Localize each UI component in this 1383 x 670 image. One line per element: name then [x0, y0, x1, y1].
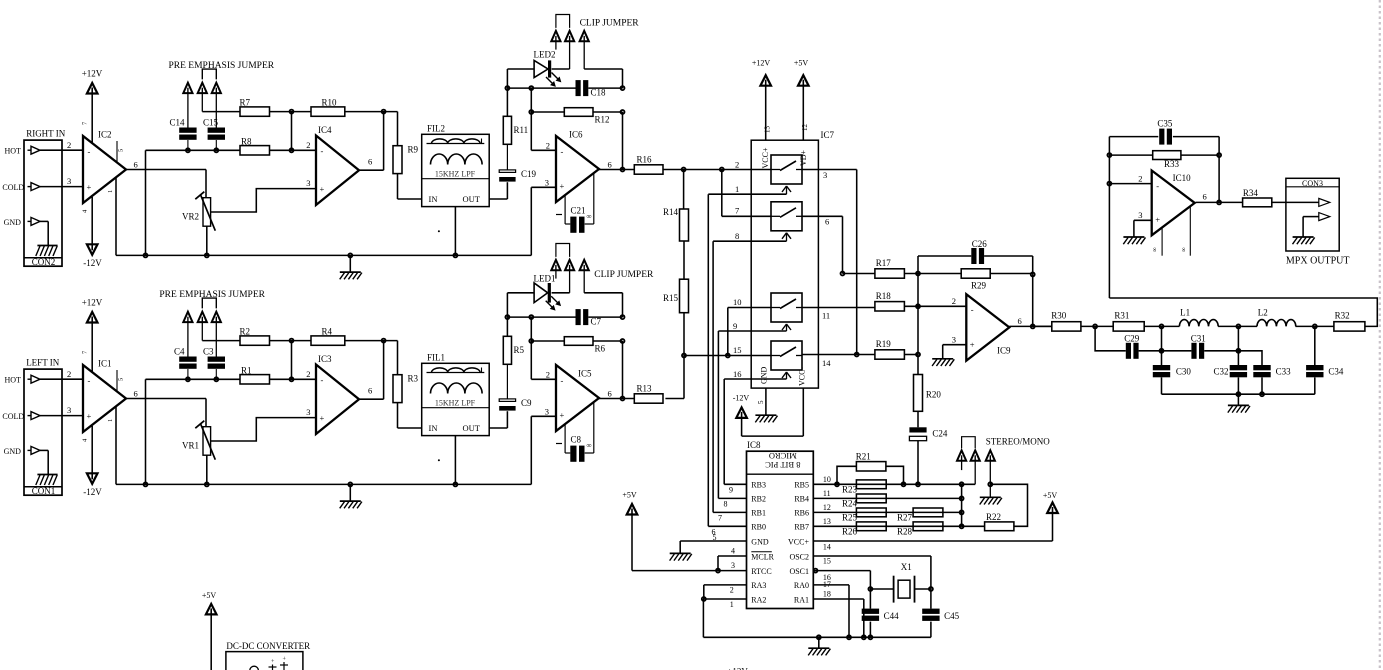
- wire S4 out (pin14): [802, 354, 875, 356]
- svg-text:13: 13: [823, 517, 831, 526]
- svg-text:MCLR: MCLR: [751, 552, 774, 561]
- svg-text:C32: C32: [1213, 366, 1228, 376]
- junction rail RA1: [862, 635, 866, 639]
- wire Rf right: [593, 111, 623, 113]
- pin 3 label (IC7): [823, 170, 827, 180]
- svg-text:14: 14: [823, 542, 831, 551]
- svg-text:R21: R21: [856, 451, 871, 461]
- wire Rfb mid to pin2 line: [291, 341, 293, 380]
- wire RB3 pin9: [724, 484, 746, 494]
- wire R13 to divider: [665, 398, 684, 400]
- resistor R5: [503, 336, 524, 364]
- wire -12V to VCC-: [742, 388, 804, 436]
- amp out pin6 label: [368, 157, 372, 167]
- svg-text:6: 6: [1018, 316, 1022, 326]
- wire RTCC pin3: [632, 561, 747, 571]
- junction FIL/rail: [453, 253, 457, 257]
- capacitor C24: [909, 427, 948, 440]
- wire LED cathode to jumper: [552, 292, 570, 294]
- junction input rail: [144, 253, 148, 257]
- pin number 3: [67, 176, 71, 186]
- wire VR wiper to amp pin3: [211, 189, 316, 212]
- IC8 pin labels RB2/RB4: [751, 495, 809, 504]
- IC10 stub pins: [1152, 206, 1191, 256]
- svg-text:IC1: IC1: [98, 359, 112, 369]
- clip jumper pin2 arrow: [565, 260, 574, 293]
- svg-text:+12V: +12V: [82, 298, 103, 308]
- svg-text:6: 6: [368, 157, 372, 167]
- label +12V (cut off): [727, 667, 748, 670]
- svg-text:VD+: VD+: [799, 149, 808, 166]
- svg-text:10: 10: [823, 475, 831, 484]
- pin COLD arrow: [2, 183, 40, 192]
- amp pin3 label: [306, 178, 310, 188]
- capacitor C15: [203, 117, 225, 140]
- wire R20 to C24: [917, 411, 919, 427]
- capacitor C4: [174, 346, 197, 369]
- svg-text:6: 6: [1203, 192, 1207, 202]
- svg-text:X1: X1: [901, 562, 912, 572]
- resistor R9: [393, 145, 419, 174]
- wire VCC+ pin14: [813, 541, 1052, 551]
- junction L1 left: [1160, 324, 1164, 328]
- wire out: [599, 398, 634, 400]
- junction RA3/RA2: [702, 597, 706, 601]
- pin 7 label (IC7): [735, 206, 739, 216]
- svg-text:R13: R13: [637, 383, 653, 393]
- svg-text:2: 2: [735, 159, 739, 169]
- svg-text:2: 2: [546, 369, 550, 379]
- capacitor C21: [556, 206, 592, 233]
- capacitor C21 leads: [565, 174, 594, 225]
- wire R17 right: [904, 273, 961, 275]
- svg-text:15KHZ LPF: 15KHZ LPF: [435, 170, 476, 179]
- svg-text:RB5: RB5: [794, 481, 809, 490]
- resistor R30: [1051, 310, 1081, 331]
- wire VR wiper to amp pin3: [211, 418, 316, 441]
- filter block FIL2: [422, 124, 490, 207]
- microcontroller IC8 box: [747, 440, 814, 609]
- svg-text:R12: R12: [595, 115, 610, 125]
- ground stem (top rail): [348, 253, 352, 272]
- svg-text:5: 5: [118, 149, 125, 152]
- svg-text:CLIP JUMPER: CLIP JUMPER: [580, 19, 640, 29]
- amp pin3 label: [306, 407, 310, 417]
- wire S1 out (pin3): [802, 170, 857, 355]
- capacitor C32: [1213, 326, 1247, 377]
- ground (IC10): [1123, 237, 1145, 244]
- label MPX OUTPUT: [1286, 255, 1350, 266]
- wire R19 right: [904, 354, 918, 356]
- wire R30: [1033, 325, 1052, 327]
- +5V supply (DC-DC): [202, 591, 217, 670]
- svg-text:IC5: IC5: [578, 369, 592, 379]
- resistor R2: [240, 326, 270, 345]
- svg-text:3: 3: [731, 561, 735, 570]
- pin 1 label: [107, 419, 114, 422]
- svg-text:OUT: OUT: [463, 423, 481, 433]
- wire OSC2 pin15: [813, 556, 931, 589]
- wire C29-C31: [1139, 350, 1192, 352]
- wire pin10 branch: [728, 308, 771, 356]
- ground rail (bottom channel): [116, 483, 531, 485]
- svg-text:MICRO: MICRO: [769, 451, 797, 461]
- svg-text:+: +: [560, 410, 565, 420]
- pin COLD arrow: [2, 412, 40, 421]
- IC8 pin labels RA3/RA0: [751, 581, 809, 590]
- svg-text:LEFT IN: LEFT IN: [26, 358, 60, 368]
- capacitor C44: [862, 589, 899, 621]
- svg-text:RA3: RA3: [751, 581, 766, 590]
- svg-text:10: 10: [733, 297, 742, 307]
- ground (CON3): [1293, 237, 1315, 244]
- IC8 pin labels RA2/RA1: [751, 595, 809, 604]
- wire fb right vertical: [1218, 137, 1220, 203]
- +12V supply arrow: [82, 69, 103, 94]
- svg-text:CON2: CON2: [32, 257, 56, 267]
- junction RB5/R21b: [902, 482, 906, 486]
- svg-text:+12V: +12V: [752, 59, 771, 68]
- resistor R34: [1243, 188, 1272, 207]
- wire C26 right: [984, 256, 1033, 274]
- wire CON3 pin2 to ground: [1303, 217, 1319, 237]
- svg-text:2: 2: [306, 369, 310, 379]
- capacitor C35: [1157, 119, 1173, 145]
- junction pin10/pin15: [726, 354, 730, 358]
- svg-text:R16: R16: [637, 154, 653, 164]
- wire feedback down to opamp out: [383, 341, 385, 400]
- svg-text:-: -: [321, 146, 324, 156]
- resistor R10: [311, 97, 345, 116]
- wire out node to Rs: [397, 341, 399, 375]
- wire Rf right: [593, 340, 623, 342]
- resistor R15: [663, 279, 689, 313]
- label STEREO/MONO: [986, 436, 1051, 446]
- capacitor C29: [1124, 333, 1140, 358]
- pin 13 supply +12V: [752, 59, 771, 141]
- svg-text:R7: R7: [240, 97, 251, 107]
- pin number 3: [67, 405, 71, 415]
- wire S2 out (pin6): [802, 216, 843, 273]
- junction cap row right: [621, 86, 625, 90]
- pin 4 label: [82, 209, 89, 213]
- junction LED node: [505, 86, 509, 90]
- junction jumper3/R22: [988, 482, 992, 486]
- svg-text:C34: C34: [1328, 366, 1344, 376]
- svg-text:RA2: RA2: [751, 595, 766, 604]
- svg-text:R5: R5: [514, 345, 525, 355]
- svg-text:DC-DC CONVERTER: DC-DC CONVERTER: [226, 641, 310, 651]
- svg-text:+: +: [1155, 214, 1160, 224]
- ground (bottom rail): [340, 501, 362, 508]
- svg-text:2: 2: [67, 369, 71, 379]
- jumper pin 1 arrow: [183, 312, 192, 357]
- ground (IC7 pin5): [755, 415, 777, 422]
- wire input line: [146, 378, 241, 380]
- wire R31-L1: [1144, 325, 1179, 327]
- svg-text:1: 1: [107, 190, 114, 193]
- wire pin7 branch: [722, 170, 771, 217]
- svg-text:C26: C26: [972, 239, 988, 249]
- wire R29 right: [990, 273, 1032, 275]
- junction pin2 node: [1107, 182, 1111, 186]
- pin 16 label (IC7): [733, 369, 742, 379]
- wire Rin to amp pin2: [270, 378, 317, 380]
- svg-text:R6: R6: [595, 344, 606, 354]
- pin3 wire: [531, 416, 556, 484]
- IC8 pin labels GND/VCC+: [751, 537, 809, 546]
- junction summing R17: [916, 272, 920, 276]
- pin2 label: [546, 140, 550, 150]
- dashed page border: [1379, 0, 1381, 670]
- switch S3 control arrow: [782, 324, 791, 331]
- wire FIL OUT: [489, 182, 507, 199]
- svg-text:-: -: [561, 147, 564, 157]
- junction cap b: [214, 377, 218, 381]
- wire RA0 pin17: [813, 580, 849, 637]
- svg-text:∞: ∞: [587, 213, 592, 221]
- output pin 6 label: [134, 389, 138, 399]
- jumper bracket: [202, 69, 216, 79]
- svg-text:15: 15: [823, 557, 831, 566]
- wire ctrl S1 (RB0): [708, 194, 786, 526]
- svg-text:6: 6: [608, 160, 612, 170]
- pin number 2: [67, 369, 71, 379]
- junction pin2 line: [290, 377, 294, 381]
- svg-text:R30: R30: [1051, 310, 1067, 320]
- resistor R24: [842, 494, 886, 509]
- wire RB4 pin11: [813, 489, 961, 499]
- wire jumper3 across: [584, 69, 622, 88]
- capacitor C33: [1253, 365, 1291, 377]
- label RIGHT IN: [26, 129, 66, 139]
- capacitor C18: [576, 80, 607, 98]
- junction RB5/R21a: [835, 482, 839, 486]
- junction output/feedback: [382, 339, 386, 343]
- junction C29 tap: [1093, 324, 1097, 328]
- ground stem (bottom rail): [348, 482, 352, 501]
- svg-text:4: 4: [731, 546, 735, 555]
- resistor R4: [311, 326, 345, 345]
- resistor R12: [564, 108, 609, 125]
- svg-text:R29: R29: [971, 281, 987, 291]
- junction pin2 line: [290, 148, 294, 152]
- op-amp IC4: [316, 125, 359, 205]
- bus junction RB5: [960, 482, 964, 486]
- svg-text:VR1: VR1: [182, 441, 199, 451]
- junction Rfb mid: [290, 110, 294, 114]
- svg-text:3: 3: [545, 406, 549, 416]
- junction Rfb row: [529, 110, 533, 114]
- wire X1 left: [870, 588, 893, 590]
- pin 1 stub / wire to ground rail: [115, 407, 117, 484]
- svg-text:∞: ∞: [587, 442, 592, 450]
- wire RB2 pin8: [718, 498, 746, 508]
- wire divider mid: [683, 241, 685, 279]
- pin 7 label: [82, 350, 89, 354]
- ground (connector): [36, 475, 58, 486]
- svg-text:-: -: [561, 376, 564, 386]
- wire C35 line: [1109, 136, 1158, 138]
- wire fb bus down: [530, 317, 532, 379]
- wire summing bus: [917, 256, 919, 375]
- wire RB bus vertical: [961, 484, 963, 526]
- svg-text:VCC-: VCC-: [798, 367, 807, 386]
- wire IC9 pin3 to ground: [943, 345, 967, 359]
- wire pin2 (IC10): [1109, 183, 1151, 185]
- wire COLD to IC pin3: [40, 415, 83, 417]
- IC8 pin labels RB3/RB5: [751, 481, 809, 490]
- clip jumper pin3 arrow: [580, 260, 589, 293]
- wire +12V to opamp: [91, 323, 93, 372]
- out pin6 label (IC9): [1018, 316, 1022, 326]
- pin 7 label: [82, 121, 89, 125]
- wire FIL OUT: [489, 411, 507, 428]
- svg-text:∞: ∞: [1152, 247, 1159, 252]
- svg-text:C9: C9: [521, 398, 532, 408]
- wire Rs to FIL IN: [398, 403, 422, 428]
- wire cap leads to input line: [188, 140, 216, 150]
- svg-text:VCC+: VCC+: [788, 537, 809, 546]
- wire +12V to opamp: [91, 94, 93, 143]
- svg-text:2: 2: [730, 585, 734, 594]
- junction R32 left: [1313, 324, 1317, 328]
- capacitor C8 leads: [565, 403, 594, 454]
- resistor R28: [897, 522, 943, 537]
- wire VR bottom to ground rail: [206, 455, 208, 484]
- op-amp IC3: [316, 354, 359, 434]
- capacitor C9: [499, 398, 532, 411]
- label PRE EMPHASIS JUMPER: [159, 290, 265, 300]
- svg-text:COLD: COLD: [2, 412, 24, 421]
- pin HOT arrow: [5, 146, 41, 155]
- wire Rv leads: [506, 317, 508, 399]
- ground (stereo jumper): [980, 497, 1002, 504]
- wire Rfb1 to Rfb2: [270, 340, 312, 342]
- wire Rfb mid to pin2 line: [291, 112, 293, 151]
- wire HOT to IC pin2: [40, 149, 83, 151]
- wire R18 right to IC9: [904, 305, 966, 307]
- svg-text:-: -: [88, 376, 91, 386]
- svg-text:18: 18: [823, 590, 831, 599]
- junction X1 left: [868, 587, 872, 591]
- svg-text:IC6: IC6: [569, 130, 583, 140]
- pin 6 label (IC7): [825, 217, 829, 227]
- wire Rf left: [531, 111, 564, 113]
- wire Rv leads: [506, 88, 508, 170]
- wire divider bottom: [683, 313, 685, 399]
- connector CON3 box: [1286, 178, 1339, 251]
- wire COLD to IC pin3: [40, 186, 83, 188]
- junction Rf right: [621, 339, 625, 343]
- junction input rail: [144, 482, 148, 486]
- pin3 label: [545, 406, 549, 416]
- ground (IC9): [932, 359, 954, 366]
- pin HOT arrow: [5, 375, 41, 384]
- connector CON1 box: [24, 369, 62, 496]
- wire LED anode: [507, 68, 534, 70]
- junction IC10 out: [1217, 200, 1221, 204]
- resistor R1: [240, 365, 270, 384]
- pin 14 label (IC7): [822, 358, 831, 368]
- resistor R27: [897, 508, 943, 523]
- wire LED node up: [506, 293, 508, 317]
- stereo jumper pin3 arrow: [986, 450, 995, 497]
- svg-text:IC7: IC7: [821, 130, 835, 140]
- wire opamp out to VR top: [126, 399, 206, 427]
- svg-text:C18: C18: [591, 88, 607, 98]
- wire ctrl S2 (RB1): [713, 241, 786, 512]
- IC8 pin labels RB1/RB6: [751, 509, 809, 518]
- svg-text:RB1: RB1: [751, 509, 766, 518]
- wire IC10 out: [1196, 201, 1243, 203]
- svg-text:3: 3: [67, 176, 71, 186]
- svg-text:RA0: RA0: [794, 581, 809, 590]
- svg-text:6: 6: [134, 160, 138, 170]
- wire Rfb2 to output node: [345, 340, 398, 342]
- wire C35 right: [1173, 136, 1219, 138]
- DC-DC converter box: [226, 641, 310, 670]
- junction divider/pin15: [682, 354, 686, 358]
- pin3 label (IC10): [1138, 210, 1142, 220]
- out pin6 label (IC10): [1203, 192, 1207, 202]
- resistor R18: [875, 291, 905, 311]
- wire right bus to out: [622, 341, 624, 399]
- resistor R31: [1113, 310, 1144, 331]
- svg-text:IN: IN: [429, 423, 438, 433]
- wire RB7 pin13: [813, 517, 961, 527]
- pin 2 label (IC7): [735, 159, 739, 169]
- junction FIL/rail: [453, 482, 457, 486]
- resistor R20: [914, 375, 942, 412]
- junction rail C44: [868, 635, 872, 639]
- svg-text:R33: R33: [1164, 159, 1180, 169]
- resistor R19: [875, 339, 905, 359]
- wire VR bottom to ground rail: [206, 226, 208, 255]
- pin 4 label: [82, 438, 89, 442]
- +12V supply arrow: [82, 298, 103, 323]
- pin GND arrow: [4, 446, 40, 455]
- wire R33 right: [1181, 154, 1219, 156]
- svg-text:R24: R24: [842, 499, 858, 509]
- svg-text:+5V: +5V: [202, 591, 217, 600]
- svg-text:3: 3: [306, 407, 310, 417]
- wire feedback down to opamp out: [383, 112, 385, 171]
- wire fb bus down: [530, 88, 532, 150]
- pin 12 supply +5V: [794, 59, 809, 141]
- wire cap row left: [507, 316, 575, 318]
- op-amp IC2: [83, 130, 126, 204]
- svg-text:1: 1: [735, 184, 739, 194]
- wire L2-R32: [1296, 325, 1334, 327]
- svg-text:C33: C33: [1276, 366, 1292, 376]
- svg-text:+5V: +5V: [794, 59, 809, 68]
- svg-text:3: 3: [1138, 210, 1142, 220]
- -12V supply (IC7): [733, 394, 750, 418]
- svg-text:RB0: RB0: [751, 523, 766, 532]
- svg-text:LED1: LED1: [534, 273, 556, 283]
- svg-text:RB6: RB6: [794, 509, 809, 518]
- svg-text:+: +: [87, 411, 92, 421]
- junction R33 right: [1217, 153, 1221, 157]
- svg-text:R20: R20: [926, 390, 942, 400]
- svg-text:-12V: -12V: [83, 487, 102, 497]
- wire RB0 pin6: [708, 526, 746, 536]
- out pin6 label: [608, 160, 612, 170]
- svg-text:R28: R28: [897, 527, 913, 537]
- svg-text:CON1: CON1: [32, 486, 56, 496]
- ground stem (micro rail): [817, 635, 821, 648]
